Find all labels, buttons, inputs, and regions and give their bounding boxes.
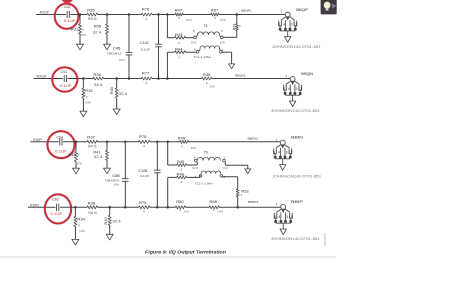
svg-text:94.6: 94.6 bbox=[88, 145, 97, 149]
red highlight circle around C63 bbox=[45, 194, 71, 223]
svg-text:DNI: DNI bbox=[192, 166, 198, 170]
svg-text:R42: R42 bbox=[104, 217, 108, 225]
svg-text:2: 2 bbox=[301, 87, 303, 91]
svg-text:JOHNSON142-0701-851: JOHNSON142-0701-851 bbox=[272, 45, 321, 49]
node junction C45 row2 bbox=[128, 77, 131, 80]
resistor R51 0 (T5 secondary to output) bbox=[236, 15, 238, 24]
resistor R45 0 bbox=[168, 164, 177, 166]
resistor R76 0 (series) bbox=[142, 13, 153, 16]
resistor R35 94.6 bbox=[87, 13, 98, 16]
ground for R41 bbox=[104, 168, 111, 174]
svg-text:C62: C62 bbox=[64, 5, 71, 9]
wire R79 to R50 bbox=[150, 206, 175, 208]
wire R47 to R67 bbox=[183, 14, 211, 16]
svg-text:0.1UF: 0.1UF bbox=[64, 19, 76, 23]
node junction R32 bbox=[82, 77, 85, 80]
ground for R42 bbox=[106, 234, 113, 240]
svg-text:DNI: DNI bbox=[186, 18, 192, 22]
svg-text:2: 2 bbox=[291, 151, 293, 155]
svg-text:BBIP: BBIP bbox=[291, 199, 303, 204]
svg-text:R41: R41 bbox=[93, 151, 101, 155]
resistor R48 0 DNI (series) bbox=[201, 77, 212, 80]
wire row3 from net label to C64 bbox=[31, 141, 59, 143]
svg-text:4: 4 bbox=[279, 215, 281, 219]
svg-text:C108: C108 bbox=[138, 169, 147, 173]
ground for R33 bbox=[73, 168, 80, 174]
ground for R32 bbox=[80, 111, 87, 117]
svg-text:4: 4 bbox=[278, 151, 280, 155]
svg-text:4: 4 bbox=[283, 23, 285, 27]
svg-text:TBD0412: TBD0412 bbox=[107, 51, 122, 55]
svg-text:DNI: DNI bbox=[222, 166, 228, 170]
wire R49 to connector BBIN bbox=[189, 141, 281, 143]
wire R36 to R77 bbox=[104, 78, 142, 80]
node junction T5 primary stub top bbox=[166, 13, 169, 16]
capacitor C63 0.1UF bbox=[56, 204, 58, 211]
resistor R43 0 DNI bbox=[167, 37, 174, 39]
node junction T6 stub row3 bbox=[166, 141, 169, 144]
T6 secondary winding pins 4-3 bbox=[199, 175, 201, 178]
svg-text:5: 5 bbox=[274, 215, 276, 219]
svg-text:R77: R77 bbox=[142, 71, 150, 75]
svg-text:RXIN: RXIN bbox=[30, 203, 40, 207]
resistor R68 0 DNI (series) bbox=[209, 206, 219, 209]
svg-text:0.1UF: 0.1UF bbox=[60, 84, 72, 88]
svg-text:0.1UF: 0.1UF bbox=[141, 48, 151, 52]
wire R35 to R76 bbox=[98, 14, 142, 16]
node junction C108 bbox=[156, 141, 159, 144]
svg-text:R46: R46 bbox=[177, 172, 185, 176]
wire R77 to R48 bbox=[152, 78, 201, 80]
svg-text:BBQN: BBQN bbox=[301, 71, 313, 76]
wire C63 to R38 bbox=[60, 206, 87, 208]
node junction T6 stub row4 bbox=[166, 206, 169, 209]
svg-text:4: 4 bbox=[288, 87, 290, 91]
capacitor C61 0.1UF bbox=[63, 75, 65, 82]
svg-text:DNI: DNI bbox=[220, 18, 226, 22]
red highlight circle around C61 bbox=[52, 67, 77, 91]
svg-text:DNI: DNI bbox=[210, 84, 216, 88]
svg-text:R78: R78 bbox=[139, 135, 147, 139]
svg-text:C63: C63 bbox=[52, 197, 59, 201]
svg-text:R43: R43 bbox=[175, 33, 183, 37]
resistor R34 0 DNI (shunt) bbox=[74, 207, 76, 216]
svg-text:SBAS550: SBAS550 bbox=[323, 233, 327, 246]
svg-text:BBIN: BBIN bbox=[291, 135, 303, 140]
svg-text:BBIN1: BBIN1 bbox=[248, 136, 259, 140]
capacitor C45 TBD0412 DNI (bridges rows 1-2) bbox=[128, 15, 130, 53]
svg-text:C45: C45 bbox=[113, 46, 121, 50]
node junction C101 row2 bbox=[157, 77, 160, 80]
node junction R31 bbox=[79, 13, 82, 16]
svg-text:DNI: DNI bbox=[184, 210, 190, 214]
svg-text:RXQN: RXQN bbox=[37, 75, 47, 79]
wire C64 to R37 bbox=[63, 141, 87, 143]
wire stub down to R43 bbox=[166, 15, 168, 38]
resistor R47 0 DNI (series) bbox=[175, 13, 183, 16]
svg-text:5: 5 bbox=[283, 87, 285, 91]
wire R67 to connector BBQP bbox=[219, 14, 285, 16]
resistor R50 0 DNI (series) bbox=[175, 206, 185, 209]
resistor R78 0 (series) bbox=[139, 140, 150, 143]
svg-text:2: 2 bbox=[296, 23, 298, 27]
svg-text:TC1-1-13M+: TC1-1-13M+ bbox=[195, 181, 214, 185]
svg-text:C61: C61 bbox=[61, 70, 68, 74]
svg-text:R40: R40 bbox=[110, 87, 114, 95]
node junction R34 bbox=[74, 206, 77, 209]
wire row2 from net label to C61 bbox=[34, 78, 64, 80]
svg-text:R50: R50 bbox=[176, 200, 184, 204]
capacitor C101 0.1UF (bridges rows 1-2) bbox=[158, 15, 160, 45]
svg-text:JOHNSON142-0701-851: JOHNSON142-0701-851 bbox=[271, 109, 320, 113]
capacitor C64 0.1UF bbox=[59, 138, 61, 145]
svg-text:T5: T5 bbox=[203, 24, 207, 28]
svg-text:0.1UF: 0.1UF bbox=[55, 150, 67, 154]
wire R38 to R79 bbox=[98, 206, 139, 208]
capacitor C88 TBD0402 DNI (bridges rows 3-4) bbox=[124, 142, 126, 179]
wire T6 pin3 to R52 bbox=[222, 176, 238, 178]
resistor R79 0 (series) bbox=[139, 206, 150, 209]
svg-text:0.1UF: 0.1UF bbox=[140, 174, 150, 178]
svg-text:R31: R31 bbox=[71, 27, 79, 31]
ground for R40 bbox=[113, 109, 120, 115]
wire R78 to R49 bbox=[150, 141, 180, 143]
svg-text:DNI: DNI bbox=[191, 146, 197, 150]
wire row4 from net label to C63 bbox=[28, 206, 56, 208]
svg-text:R44: R44 bbox=[175, 48, 183, 52]
lightbulb tip icon bbox=[321, 0, 337, 14]
svg-text:94.6: 94.6 bbox=[94, 83, 103, 87]
svg-text:5: 5 bbox=[273, 151, 275, 155]
svg-text:32.4: 32.4 bbox=[119, 92, 128, 96]
node junction C88 row4 bbox=[124, 206, 127, 209]
node junction C88 bbox=[124, 141, 127, 144]
capacitor C108 0.1UF (bridges rows 3-4) bbox=[156, 142, 158, 170]
wire row1 from net label to C62 bbox=[36, 14, 66, 16]
resistor R44 0 bbox=[166, 52, 168, 78]
svg-text:R09: R09 bbox=[94, 25, 102, 29]
svg-text:R36: R36 bbox=[93, 73, 101, 77]
T6 primary winding pins 6-1 bbox=[196, 162, 198, 165]
wire R76 to R47 bbox=[152, 14, 175, 16]
ground for R31 bbox=[77, 44, 84, 50]
svg-text:DNI: DNI bbox=[86, 101, 92, 105]
svg-text:BBQN1: BBQN1 bbox=[235, 73, 246, 77]
node junction T5 stub row2 bbox=[166, 77, 169, 80]
svg-text:R38: R38 bbox=[88, 201, 96, 205]
svg-text:32.4: 32.4 bbox=[94, 155, 103, 159]
svg-text:R67: R67 bbox=[211, 8, 219, 12]
T5 secondary winding pins 4-3 bbox=[196, 50, 199, 53]
svg-text:R37: R37 bbox=[87, 135, 95, 139]
svg-text:R47: R47 bbox=[175, 8, 183, 12]
node junction C101 bbox=[157, 13, 160, 16]
node junction R41 bbox=[106, 141, 109, 144]
svg-text:TC1-1-13M+: TC1-1-13M+ bbox=[193, 55, 212, 59]
divider rule bbox=[0, 256, 336, 258]
svg-text:R48: R48 bbox=[203, 73, 211, 77]
svg-text:R79: R79 bbox=[139, 201, 147, 205]
svg-text:DNI: DNI bbox=[217, 210, 223, 214]
wire T5 pin3 to ground bbox=[222, 51, 232, 53]
svg-text:2: 2 bbox=[291, 215, 293, 219]
resistor R32 0 DNI (shunt) bbox=[82, 79, 84, 89]
wire stub down to R45 bbox=[167, 142, 169, 165]
resistor R52 0 (T6 secondary to output) bbox=[236, 189, 239, 197]
red annotation marker above C62 bbox=[61, 0, 72, 3]
resistor R41 32.4 (shunt) bbox=[106, 142, 108, 151]
ground for R34 bbox=[72, 239, 79, 245]
svg-text:DNI: DNI bbox=[81, 33, 87, 37]
svg-text:DNI: DNI bbox=[114, 182, 120, 186]
svg-text:R45: R45 bbox=[177, 160, 185, 164]
svg-text:R34: R34 bbox=[77, 218, 85, 222]
wire C62 to R35 bbox=[71, 14, 88, 16]
ground for T6 pin1 bbox=[245, 169, 251, 174]
svg-text:JOHNSON142-0701-851: JOHNSON142-0701-851 bbox=[271, 237, 320, 241]
svg-text:94.6: 94.6 bbox=[88, 211, 97, 215]
svg-text:R33: R33 bbox=[68, 153, 76, 157]
resistor R42 32.4 (shunt) bbox=[109, 207, 111, 215]
svg-text:Figure 9: I/Q Output Terminati: Figure 9: I/Q Output Termination bbox=[145, 249, 226, 254]
node junction R52 row4 bbox=[236, 206, 239, 209]
svg-text:3: 3 bbox=[286, 151, 288, 155]
wire R50 to R68 bbox=[186, 206, 210, 208]
svg-text:R68: R68 bbox=[209, 200, 217, 204]
node junction R40 bbox=[115, 77, 118, 80]
wire T6 pin1 to ground bbox=[225, 164, 248, 166]
svg-text:T6: T6 bbox=[204, 150, 208, 154]
resistor R46 0 bbox=[167, 177, 169, 207]
resistor R77 0 (series) bbox=[142, 77, 153, 80]
svg-text:32.4: 32.4 bbox=[93, 30, 102, 34]
node junction R33 bbox=[75, 141, 78, 144]
ground for T5 pin3 bbox=[229, 64, 235, 69]
resistor R67 0 DNI (series) bbox=[211, 13, 219, 16]
resistor R37 94.6 bbox=[87, 140, 98, 143]
capacitor C62 0.1UF bbox=[66, 11, 68, 18]
red highlight circle around C62 bbox=[55, 4, 79, 29]
svg-text:DNI: DNI bbox=[191, 40, 197, 44]
red highlight circle around C64 bbox=[47, 131, 74, 158]
svg-text:DNI: DNI bbox=[79, 229, 85, 233]
svg-text:DNI: DNI bbox=[220, 40, 226, 44]
resistor R09 32.4 (shunt) bbox=[106, 15, 108, 25]
svg-text:3: 3 bbox=[291, 23, 293, 27]
svg-text:R35: R35 bbox=[87, 9, 95, 13]
svg-text:32.4: 32.4 bbox=[112, 220, 121, 224]
svg-text:BBIP1: BBIP1 bbox=[248, 200, 259, 204]
resistor R40 32.4 (shunt) bbox=[116, 79, 118, 89]
svg-text:TBD0402: TBD0402 bbox=[105, 178, 120, 182]
node junction R42 bbox=[108, 206, 111, 209]
node junction C108 row4 bbox=[156, 206, 159, 209]
T5 primary winding pins 6-1 bbox=[194, 36, 197, 39]
svg-text:3: 3 bbox=[296, 87, 298, 91]
resistor R38 94.6 bbox=[87, 206, 98, 209]
svg-text:C101: C101 bbox=[140, 41, 149, 45]
svg-text:94.6: 94.6 bbox=[88, 17, 97, 21]
svg-text:R76: R76 bbox=[142, 8, 150, 12]
svg-text:RXQP: RXQP bbox=[40, 10, 49, 14]
resistor R49 0 DNI (series) bbox=[180, 140, 189, 143]
svg-text:5: 5 bbox=[278, 23, 280, 27]
svg-text:DNI: DNI bbox=[77, 161, 83, 165]
wire R48 to connector BBQN bbox=[212, 78, 290, 80]
svg-text:0.1UF: 0.1UF bbox=[50, 212, 62, 216]
svg-text:DNI: DNI bbox=[119, 58, 125, 62]
svg-text:R32: R32 bbox=[85, 89, 93, 93]
node junction C45 bbox=[128, 13, 131, 16]
svg-text:R51: R51 bbox=[232, 23, 236, 30]
ground for R09 bbox=[104, 44, 111, 50]
svg-text:JOHNSON142-0701-851: JOHNSON142-0701-851 bbox=[272, 174, 321, 178]
wire R68 to connector BBIP bbox=[219, 206, 280, 208]
svg-text:3: 3 bbox=[286, 215, 288, 219]
node junction R09 bbox=[106, 13, 109, 16]
resistor R31 0 DNI (shunt) bbox=[79, 15, 81, 25]
svg-text:R52: R52 bbox=[241, 189, 249, 193]
svg-text:R49: R49 bbox=[178, 136, 186, 140]
resistor R36 94.6 bbox=[93, 77, 104, 80]
svg-text:BBQP: BBQP bbox=[296, 7, 308, 12]
wire R37 to R78 bbox=[98, 141, 139, 143]
svg-text:C88: C88 bbox=[112, 174, 120, 178]
svg-text:C64: C64 bbox=[57, 135, 64, 139]
wire C61 to R36 bbox=[68, 78, 94, 80]
resistor R33 0 DNI (shunt) bbox=[75, 142, 77, 152]
svg-text:BBQP1: BBQP1 bbox=[241, 9, 252, 13]
node junction R51 bbox=[236, 13, 239, 16]
